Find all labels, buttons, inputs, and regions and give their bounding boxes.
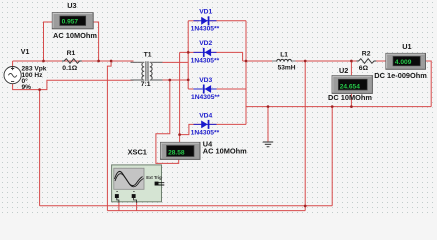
svg-text:L1: L1: [280, 52, 288, 59]
oscilloscope XSC1: [112, 165, 165, 203]
wire V1 top riser: [12, 61, 14, 67]
svg-text:7:1: 7:1: [141, 81, 151, 88]
svg-text:1N4305**: 1N4305**: [191, 129, 220, 136]
svg-text:VD3: VD3: [199, 77, 212, 84]
svg-text:28.58: 28.58: [168, 150, 185, 157]
wire branch V1-bottom down to bottom rail: [39, 90, 41, 206]
wire VD2/VD4 column down to U4 top: [179, 52, 181, 142]
wire main top rail from V1 to T1 primary top: [13, 60, 134, 62]
svg-text:53mH: 53mH: [278, 64, 296, 71]
ground: [263, 142, 273, 147]
svg-text:AC 10MOhm: AC 10MOhm: [53, 31, 97, 40]
wire U2 top lead: [350, 61, 352, 76]
wire output rail through L1 R2 U1: [243, 60, 272, 62]
wire bottom rail A: [40, 205, 333, 207]
wire diode left column vertical: [187, 21, 189, 89]
wire T1 secondary bottom extension: [163, 79, 189, 81]
wire U3 right lead down: [93, 22, 98, 61]
transformer T1: [142, 61, 152, 81]
diode VD4: [194, 120, 217, 129]
wire diode right column vertical: [245, 21, 247, 125]
AC source V1: [4, 67, 21, 84]
svg-text:VD4: VD4: [199, 112, 212, 119]
wire T1 secondary top to diode column: [162, 61, 188, 63]
svg-text:6Ω: 6Ω: [359, 65, 369, 72]
inductor L1: [272, 59, 296, 61]
svg-text:9%: 9%: [22, 84, 32, 91]
wire VD3 row left lead: [188, 88, 201, 90]
svg-text:U1: U1: [402, 42, 411, 51]
svg-text:0.1Ω: 0.1Ω: [62, 65, 77, 72]
wire VD2 row left lead: [180, 51, 201, 53]
ammeter U1: [386, 53, 426, 69]
svg-text:VD2: VD2: [199, 40, 212, 47]
svg-text:0.957: 0.957: [62, 19, 79, 26]
wire secondary bottom down-around to U4 bottom: [156, 80, 179, 163]
wire mid ground rail: [246, 106, 431, 108]
svg-text:1N4305**: 1N4305**: [191, 94, 220, 101]
svg-text:DC 10MOhm: DC 10MOhm: [328, 93, 372, 102]
wire riser output to bottom rail B: [304, 61, 306, 211]
resistor R1: [62, 59, 82, 64]
wire VD3 row right lead: [211, 88, 246, 90]
transformer pins: [131, 62, 163, 80]
svg-text:1N4305**: 1N4305**: [191, 57, 220, 64]
svg-text:Ext Trig: Ext Trig: [146, 175, 162, 180]
svg-text:R2: R2: [362, 50, 371, 57]
wire ground drop: [267, 107, 269, 142]
svg-text:V1: V1: [21, 49, 30, 56]
wire scope B probe drop: [136, 203, 138, 211]
svg-text:U3: U3: [67, 1, 76, 10]
svg-text:R1: R1: [67, 50, 76, 57]
svg-text:T1: T1: [144, 52, 152, 59]
voltmeter U2: [332, 76, 372, 94]
wire VD4 left lead jog: [180, 124, 201, 134]
wire U3 left lead down: [44, 22, 53, 61]
diode VD1: [194, 16, 217, 25]
diode VD3: [194, 85, 217, 94]
svg-text:4.009: 4.009: [395, 59, 412, 66]
wire scope A probe drop: [118, 203, 120, 211]
voltmeter U4: [161, 142, 201, 159]
wire VD2 row right lead into output: [211, 52, 243, 61]
voltmeter U3: [52, 13, 93, 29]
wire VD1 row right lead: [210, 20, 246, 22]
resistor R2: [357, 59, 377, 64]
svg-text:AC 10MOhm: AC 10MOhm: [203, 147, 247, 156]
svg-text:DC 1e-009Ohm: DC 1e-009Ohm: [374, 71, 427, 80]
wire U1 right side down: [426, 61, 432, 107]
svg-text:U2: U2: [339, 66, 348, 75]
wire bottom rail B: [107, 210, 305, 212]
wire VD4 right lead: [209, 123, 246, 125]
wire V1 bottom riser: [13, 80, 134, 89]
wire U2 bottom lead: [350, 93, 352, 106]
svg-text:XSC1: XSC1: [128, 148, 147, 157]
svg-text:VD1: VD1: [199, 8, 212, 15]
node junction dots: [38, 51, 353, 207]
svg-text:1N4305**: 1N4305**: [191, 26, 220, 33]
wire output rail between L1 and R2: [296, 60, 358, 62]
value labels of V1: [22, 66, 47, 92]
diode VD2: [194, 48, 217, 57]
wire rail A riser to mid rail: [331, 107, 333, 206]
wire VD1 row left lead: [188, 20, 199, 22]
wire output rail between R2 and U1: [374, 60, 386, 62]
svg-text:24.654: 24.654: [340, 83, 361, 90]
wire jog from node after R1 down to bottom: [107, 61, 111, 211]
